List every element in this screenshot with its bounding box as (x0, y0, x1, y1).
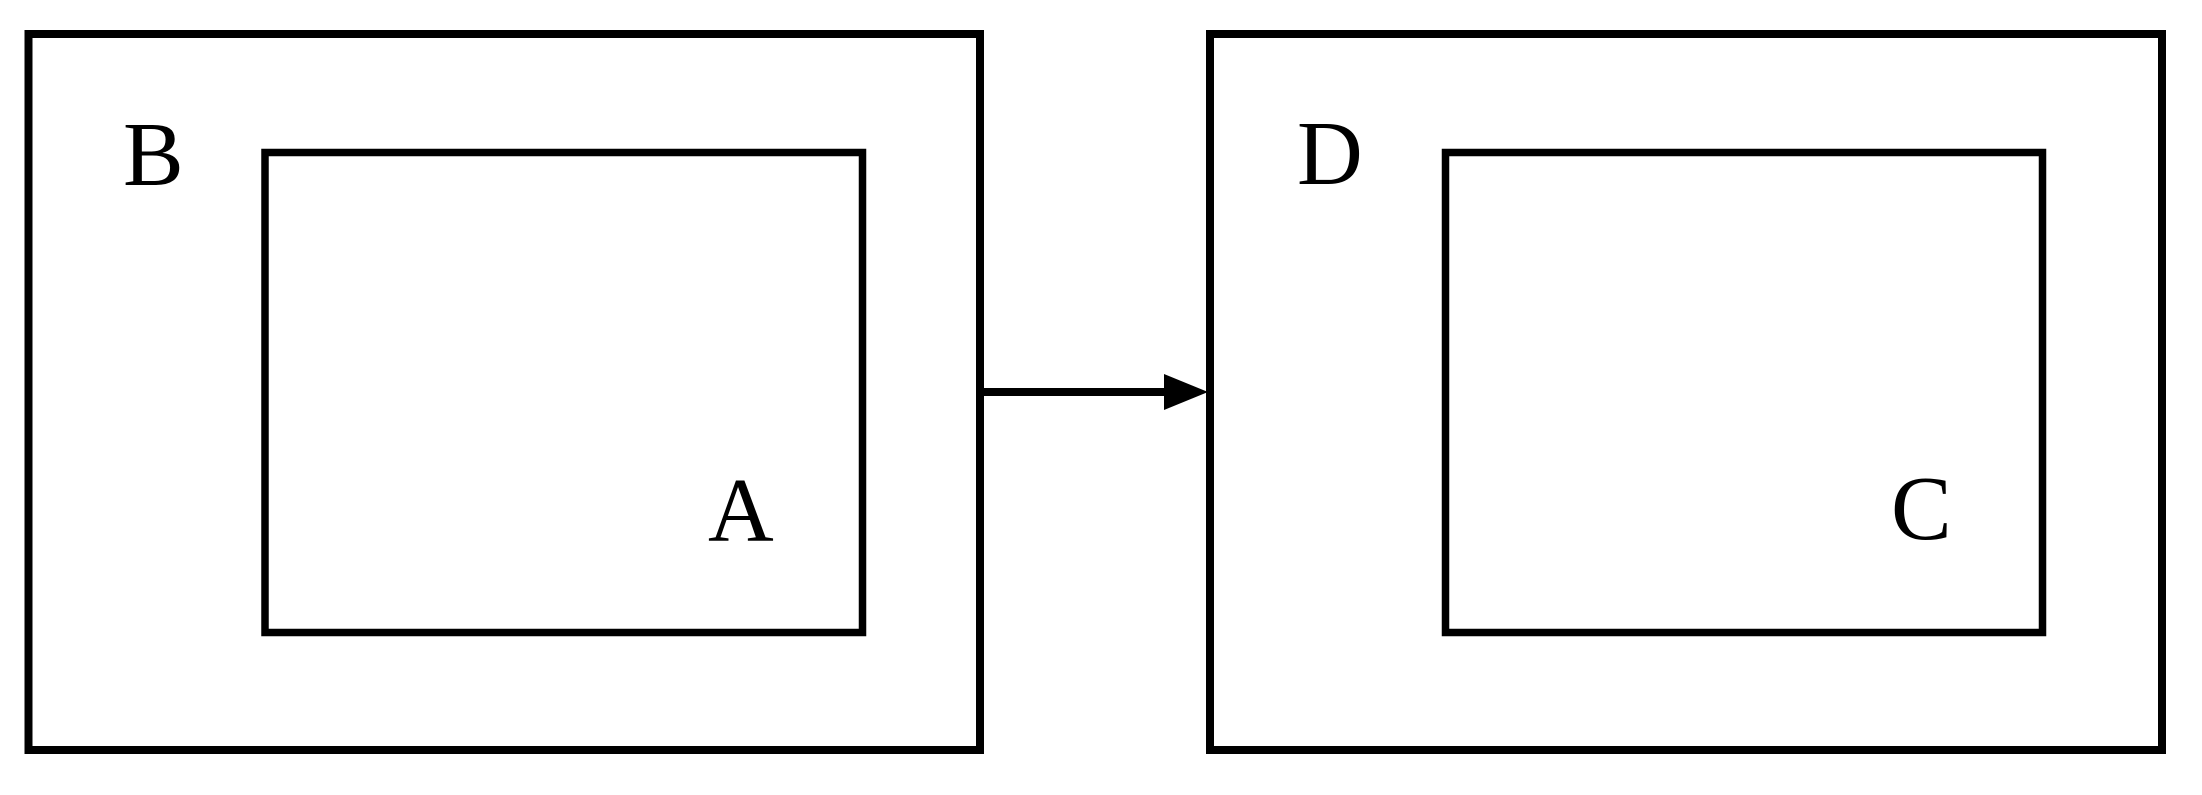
svg-text:B: B (123, 104, 184, 205)
svg-text:A: A (708, 460, 774, 561)
svg-text:C: C (1891, 458, 1952, 559)
svg-text:D: D (1297, 103, 1363, 204)
